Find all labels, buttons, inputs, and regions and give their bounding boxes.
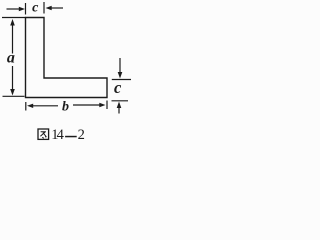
dimension a: bottom extension line — [3, 95, 25, 97]
caption glyph 图 — [38, 129, 49, 139]
dimension c top: right arrow — [46, 6, 64, 10]
dimension b: left arrow — [27, 104, 58, 108]
svg-text:b: b — [62, 100, 69, 115]
L-shape outline — [26, 18, 108, 98]
svg-text:2: 2 — [78, 127, 85, 143]
dimension b: right arrow — [73, 103, 106, 107]
dimension c right: up arrow — [117, 102, 122, 114]
label a — [7, 50, 15, 67]
dimension b: right tick — [106, 101, 108, 110]
dimension c right: down arrow — [118, 58, 123, 79]
caption dash — [65, 136, 77, 138]
dimension a: top arrow (up) — [10, 19, 15, 54]
dimension c right: bottom tick — [112, 100, 129, 102]
label c top — [32, 1, 39, 16]
label c right — [114, 78, 122, 97]
caption text 4 — [57, 127, 65, 143]
dimension b: left tick — [25, 102, 27, 111]
svg-text:a: a — [7, 50, 15, 67]
dimension c top: right tick — [43, 2, 45, 14]
caption text 1 — [51, 127, 58, 143]
label b — [62, 100, 69, 115]
dimension a: bottom arrow (down) — [10, 66, 15, 96]
svg-text:4: 4 — [57, 127, 65, 143]
dimension c right: top tick — [112, 79, 131, 81]
svg-text:c: c — [32, 1, 39, 16]
dimension c top: left arrow — [7, 7, 26, 11]
dimension c top: left tick — [25, 3, 27, 15]
dimension a: top extension line — [2, 17, 26, 19]
svg-text:c: c — [114, 78, 122, 97]
caption text 2 — [78, 127, 85, 143]
